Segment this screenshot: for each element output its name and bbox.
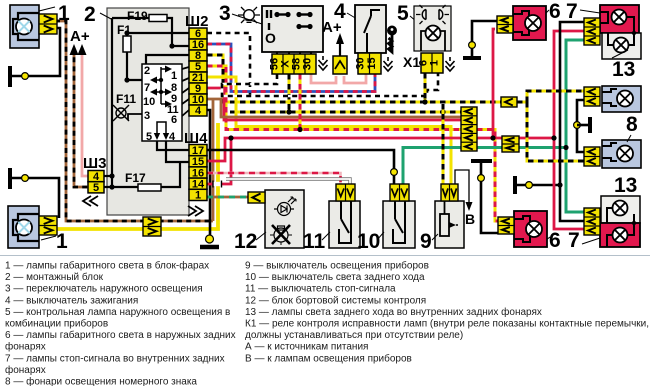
connector 5-way junction [461,107,477,151]
wire Ш4-1 brown-green [207,196,248,199]
legend separator [0,255,650,257]
svg-text:6: 6 [549,229,561,252]
rear lamp 6 top [513,6,546,40]
svg-text:фонарях: фонарях [5,341,46,353]
wire A+ pink feed to Ш3-4 [82,48,90,176]
svg-text:7: 7 [566,0,578,23]
rear lamp 6 bottom [514,211,547,247]
svg-text:30: 30 [355,57,367,69]
svg-text:8: 8 [626,113,638,136]
wire yellow-black feed to plate lamps [517,91,584,102]
wire ground top headlamp [11,28,60,76]
svg-text:1 — лампы габаритного света в: 1 — лампы габаритного света в блок-фарах [5,260,209,272]
wire white to comp11 [226,179,350,184]
svg-text:12: 12 [234,230,257,253]
wire X1-6 yellow-black [424,73,427,102]
wire box6-top ground [472,21,497,57]
control unit 12 [265,190,304,248]
wire yellow to rear side lamp [55,123,218,229]
wire crimson stop-signal row [207,138,554,161]
ground comp3 [322,56,324,60]
ground bottom-left [8,168,12,189]
svg-text:13: 13 [612,58,635,81]
svg-text:9: 9 [420,230,432,253]
montage block 2 [107,8,189,215]
svg-text:F1: F1 [117,23,131,37]
wire brown headlamp harness [55,21,213,221]
svg-text:15: 15 [366,57,378,69]
relay bottom pins 5 4 [157,122,166,135]
wire crimson right column [554,31,584,229]
svg-text:8 — фонари освещения номерного: 8 — фонари освещения номерного знака [5,376,197,386]
svg-text:10: 10 [143,96,155,108]
wire Ш2-6 white-black [207,33,250,96]
relay connections [182,67,189,69]
svg-text:Ш3: Ш3 [83,155,106,172]
LED icon [274,197,296,216]
connector rear bottom [584,208,600,235]
svg-text:5: 5 [397,2,409,25]
ground rear lamps [513,176,517,194]
svg-text:К1 — реле контроля исправности: К1 — реле контроля исправности ламп (вну… [245,319,650,330]
svg-text:4: 4 [169,131,176,143]
svg-text:3: 3 [144,110,150,122]
reverse lamp 13 top [602,33,641,59]
wire plate lamps ground [577,100,584,152]
svg-text:F19: F19 [127,9,148,23]
wire green right column [566,40,584,212]
svg-text:A+: A+ [70,28,90,45]
svg-text:F17: F17 [125,171,146,185]
svg-text:2: 2 [84,3,96,26]
svg-text:должны устанавливаться при отс: должны устанавливаться при отсутствии ре… [245,330,463,341]
svg-text:комбинации приборов: комбинации приборов [5,318,108,330]
rheostat 9 [435,201,464,248]
svg-text:7 — лампы стоп-сигнала во внут: 7 — лампы стоп-сигнала во внутренних зад… [5,353,225,364]
stop switch 11 [329,201,360,248]
svg-text:1: 1 [58,2,70,25]
svg-text:2 — монтажный блок: 2 — монтажный блок [5,271,104,283]
svg-text:12 — блок бортовой системы кон: 12 — блок бортовой системы контроля [245,294,426,306]
svg-text:6: 6 [171,114,177,126]
wire ground bottom headlamp [11,178,59,218]
ground comp9 area [471,159,492,163]
wire comp3-X yellow-black row [288,74,291,112]
wire Ш2-4 black to ground [207,110,210,238]
svg-text:30: 30 [302,58,314,70]
plate lamp 8 top [602,86,641,112]
wire yellow-black to comp9 [442,104,445,184]
svg-text:2: 2 [144,65,150,77]
svg-text:1: 1 [195,190,201,202]
plate lamp 8 bottom [602,140,641,168]
svg-text:6: 6 [549,0,561,23]
svg-text:11: 11 [303,230,326,253]
wire comp3-58 down [299,74,302,130]
key icon [387,26,397,36]
relay K1 [142,64,182,141]
svg-text:O: O [265,30,276,46]
connector double junction [502,136,519,152]
lamp icon comp3 [238,7,260,23]
headlamp 1 top [10,5,39,48]
wire A+ brown feed to Ш3-5 [74,48,90,187]
wire Ш2-16 blue-red [207,44,375,92]
svg-text:1: 1 [56,230,68,253]
svg-text:A+: A+ [322,19,342,36]
wire Ш4-16 white-red [207,173,341,184]
comp4 pins 30 15 [358,53,381,74]
svg-text:3: 3 [219,2,231,25]
wire green reverse row [403,148,566,185]
svg-text:5: 5 [146,131,152,143]
svg-text:В — к лампам освещения приборо: В — к лампам освещения приборов [245,352,412,364]
svg-text:1: 1 [429,60,441,66]
wire pink W feed [311,74,336,83]
svg-text:5: 5 [93,182,99,194]
svg-text:9 — выключатель освещения приб: 9 — выключатель освещения приборов [245,260,429,272]
svg-text:13: 13 [614,174,637,197]
wire Ш2-21 yellow [207,77,451,184]
loop B from comp9 [455,170,469,204]
svg-text:4 — выключатель зажигания: 4 — выключатель зажигания [5,295,138,306]
svg-text:3 — переключатель наружного ос: 3 — переключатель наружного освещения [5,284,203,295]
svg-text:1: 1 [171,70,177,82]
wire Ш2-9 crimson row [207,88,461,120]
svg-text:11 — выключатель стоп-сигнала: 11 — выключатель стоп-сигнала [245,284,396,295]
svg-text:10: 10 [357,230,380,253]
connector in headlamp harness [143,217,161,236]
svg-text:5 — контрольная лампа наружног: 5 — контрольная лампа наружного освещени… [5,307,230,318]
wire Ш2-5 yellow-red [207,66,461,130]
svg-text:13 — лампы света заднего хода: 13 — лампы света заднего хода во внутрен… [245,306,542,318]
wire yellow-red to rear fog connector [477,130,498,222]
ground comp4 [387,57,389,61]
ground top-left [8,66,12,87]
rear lamp 7 bottom [600,223,640,247]
wire black right column [560,22,584,221]
svg-text:F11: F11 [116,92,136,106]
headlamp 1 bottom [8,206,39,248]
svg-text:4: 4 [195,105,202,117]
svg-text:B: B [465,211,475,227]
wire black dashed instrument net [222,73,438,96]
wire Ш2-8 yellow-black [207,55,517,102]
wire black Ш4-17 row [207,150,394,184]
svg-text:7: 7 [144,82,150,94]
connector rear top [584,18,600,45]
reverse switch 10 [383,201,415,248]
connector single junction [501,97,517,107]
crossed lamp icon [270,226,292,245]
wire box6-top crimson [493,29,495,138]
svg-text:7: 7 [568,229,580,252]
svg-text:А — к источникам питания: А — к источникам питания [245,342,368,353]
svg-text:6 — лампы габаритного света в: 6 — лампы габаритного света в наружных з… [5,329,236,341]
svg-text:10 — выключатель света заднего: 10 — выключатель света заднего хода [245,272,425,283]
comp3 pins 56 X 58 30 [272,54,316,74]
ground comp5 [449,57,451,61]
wire Ш4-14 crimson with splice [207,139,231,184]
wire Ш2-10 brown row [212,99,215,221]
svg-text:фонарях: фонарях [5,364,46,376]
